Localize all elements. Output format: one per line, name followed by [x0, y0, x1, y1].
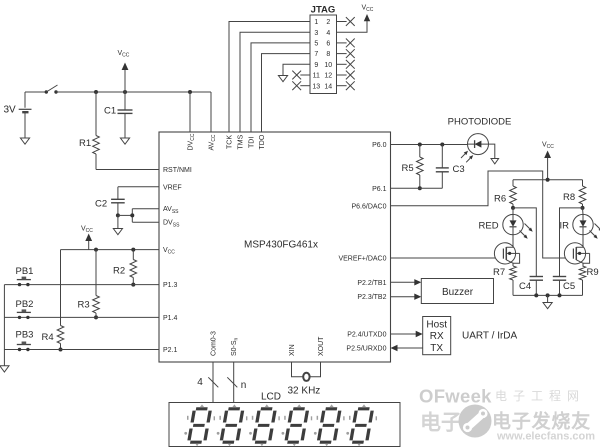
- svg-text:PB2: PB2: [16, 299, 34, 310]
- pin label TDO: [259, 134, 266, 149]
- svg-text:R3: R3: [78, 300, 90, 311]
- Vcc symbol (rail): [118, 50, 130, 92]
- resistor R8: [579, 180, 586, 208]
- label 3V: [4, 105, 17, 116]
- svg-text:13: 13: [312, 83, 320, 90]
- svg-text:RST/NMI: RST/NMI: [163, 167, 192, 174]
- label R1: [79, 138, 91, 149]
- label TX: [430, 343, 443, 354]
- label PHOTODIODE: [448, 117, 512, 128]
- buzzer box: [421, 279, 493, 304]
- ground (C2): [113, 215, 122, 234]
- svg-text:11: 11: [313, 73, 320, 80]
- svg-text:5: 5: [314, 41, 318, 48]
- node R2/P1.3: [131, 283, 135, 287]
- Vcc symbol (pullups): [81, 226, 93, 250]
- node R3 tap: [94, 248, 98, 252]
- pin label P2.1: [163, 347, 178, 354]
- wire TMS: [240, 32, 310, 132]
- wire C5 branch: [560, 208, 584, 277]
- ground (buttons): [0, 366, 9, 372]
- pin label V<tspan font: [163, 247, 175, 256]
- label UART / IrDA: [462, 331, 518, 342]
- svg-text:C3: C3: [453, 164, 465, 175]
- label Host: [426, 320, 447, 331]
- svg-text:Com0-3: Com0-3: [210, 331, 217, 356]
- wire pin2 nc: [337, 17, 355, 26]
- wire AVss/DVss link: [118, 209, 159, 223]
- svg-text:8: 8: [326, 51, 330, 58]
- svg-text:9: 9: [314, 62, 318, 69]
- label R5: [402, 163, 414, 174]
- capacitor C5: [553, 277, 566, 296]
- label JTAG: [311, 4, 336, 15]
- wire button rail: [3, 285, 5, 366]
- resistor R2: [130, 250, 137, 285]
- label C4: [519, 281, 531, 292]
- pin label DVcc top: [187, 133, 196, 150]
- Vcc symbol (JTAG): [362, 5, 374, 22]
- wire photodiode gnd: [489, 144, 495, 158]
- pin label VEREF+/DAC0: [338, 256, 386, 263]
- node R1 tap: [94, 90, 98, 94]
- wire RST/NMI: [96, 169, 159, 171]
- label R3: [78, 300, 90, 311]
- label PB3: [16, 330, 34, 341]
- pushbutton PB1: [17, 277, 31, 287]
- wire S0-Sn: [233, 362, 235, 403]
- resistor R7: [510, 266, 517, 295]
- ground (C1): [120, 138, 129, 144]
- label RX: [430, 331, 444, 342]
- svg-text:n: n: [241, 380, 247, 391]
- svg-text:PHOTODIODE: PHOTODIODE: [448, 117, 512, 128]
- pin label TDI: [248, 137, 255, 148]
- host box: [423, 317, 451, 355]
- wire P2.3/TB2: [391, 294, 422, 300]
- crystal 32KHz: [303, 373, 309, 381]
- svg-text:PB3: PB3: [16, 330, 34, 341]
- svg-text:LCD: LCD: [261, 392, 281, 403]
- wire JTAG pin9 gnd: [283, 64, 310, 75]
- node mid gnd: [546, 293, 550, 297]
- node R6 bottom: [511, 206, 515, 210]
- svg-text:TMS: TMS: [237, 134, 244, 149]
- svg-text:电子: 电子: [420, 412, 462, 435]
- pin label P2.4/UTXD0: [347, 332, 386, 339]
- pin label S0-Sn: [231, 337, 240, 356]
- photodiode D1: [468, 134, 489, 155]
- label C2: [95, 199, 107, 210]
- svg-text:P2.5/URXD0: P2.5/URXD0: [346, 346, 386, 353]
- svg-text:OFweek: OFweek: [419, 386, 492, 407]
- svg-text:P6.6/DAC0: P6.6/DAC0: [351, 203, 386, 210]
- svg-text:UART / IrDA: UART / IrDA: [462, 331, 518, 342]
- wire XOUT: [310, 362, 321, 377]
- node R5 bottom: [418, 186, 422, 190]
- JTAG connector box: [310, 15, 337, 94]
- pin label P2.5/URXD0: [346, 346, 386, 353]
- resistor R1: [93, 92, 100, 170]
- wire pin10 nc: [337, 60, 355, 69]
- bus slash n: [227, 377, 246, 391]
- svg-text:P1.3: P1.3: [163, 282, 178, 289]
- transistor Q2 (IR driver): [564, 235, 589, 266]
- svg-text:Buzzer: Buzzer: [442, 287, 474, 298]
- svg-text:P2.1: P2.1: [163, 347, 178, 354]
- wire VREF: [118, 186, 159, 188]
- svg-text:P2.4/UTXD0: P2.4/UTXD0: [347, 332, 386, 339]
- wire VEREF+/DAC0 net: [391, 257, 504, 259]
- photodiode light arrows: [461, 151, 473, 163]
- transistor Q1 (RED driver): [494, 235, 519, 266]
- label C5: [563, 281, 575, 292]
- svg-text:TDI: TDI: [248, 137, 255, 148]
- wire pin6 nc: [337, 39, 355, 48]
- pin label P1.4: [163, 315, 178, 322]
- label PB1: [16, 266, 34, 277]
- svg-text:2: 2: [326, 19, 330, 26]
- svg-text:P6.0: P6.0: [372, 142, 387, 149]
- svg-text:6: 6: [326, 41, 330, 48]
- wire P2.1: [4, 349, 159, 351]
- svg-text:R9: R9: [587, 267, 599, 278]
- svg-text:XOUT: XOUT: [318, 336, 325, 356]
- pushbutton PB2: [17, 309, 31, 319]
- pin label VREF: [163, 184, 182, 191]
- node C3 top: [440, 143, 444, 147]
- LED IR: [573, 208, 593, 235]
- svg-text:P6.1: P6.1: [372, 186, 387, 193]
- resistor R9: [579, 266, 586, 295]
- pin label P6.1: [372, 186, 387, 193]
- wire Vcc line: [61, 249, 160, 251]
- LCD box: [169, 403, 400, 447]
- label R9: [587, 267, 599, 278]
- wire P6.1: [391, 187, 443, 189]
- svg-text:RX: RX: [430, 331, 444, 342]
- svg-text:P2.2/TB1: P2.2/TB1: [357, 280, 386, 287]
- label C3: [453, 164, 465, 175]
- svg-text:电子工程网: 电子工程网: [495, 388, 585, 403]
- wire pin8 nc: [337, 49, 355, 58]
- pin label AV<tspan fon: [163, 206, 179, 215]
- resistor R6: [510, 180, 517, 208]
- node R8 bottom: [581, 206, 585, 210]
- pin label P2.2/TB1: [357, 280, 386, 287]
- bus slash 4: [197, 377, 218, 388]
- svg-text:3V: 3V: [4, 105, 17, 116]
- svg-text:3: 3: [314, 30, 318, 37]
- MCU U1 MSP430FG461x box: [159, 132, 391, 362]
- svg-text:R8: R8: [563, 192, 575, 203]
- label IR: [560, 221, 570, 232]
- svg-text:XIN: XIN: [289, 344, 296, 356]
- wire LED gnd rail: [513, 294, 583, 296]
- label RED: [479, 221, 499, 232]
- svg-text:10: 10: [324, 62, 332, 69]
- svg-text:C2: C2: [95, 199, 107, 210]
- node R5 top: [418, 143, 422, 147]
- node DVcc tap: [188, 90, 192, 94]
- svg-text:电子发烧友: 电子发烧友: [492, 410, 591, 433]
- ground (photodiode): [491, 159, 499, 164]
- wire P6.6/DAC0 net: [391, 171, 574, 258]
- svg-text:32 KHz: 32 KHz: [288, 386, 321, 397]
- svg-text:PB1: PB1: [16, 266, 34, 277]
- ground (battery): [20, 138, 29, 144]
- wire P1.3: [4, 284, 159, 286]
- wire DVcc: [189, 92, 191, 132]
- svg-text:12: 12: [324, 73, 332, 80]
- LED IR arrows: [590, 224, 600, 239]
- battery 3V: [19, 92, 32, 138]
- node AVss/DVss: [130, 213, 134, 217]
- svg-text:C5: C5: [563, 281, 575, 292]
- wire P2.4/UTXD0: [391, 331, 423, 337]
- pin label XIN: [289, 344, 296, 356]
- wire P2.5/URXD0: [391, 345, 423, 351]
- label R8: [563, 192, 575, 203]
- resistor R4: [57, 326, 64, 350]
- pin label P6.0: [372, 142, 387, 149]
- label R6: [494, 194, 506, 205]
- label R4: [42, 332, 54, 343]
- svg-text:TDO: TDO: [259, 134, 266, 149]
- wire pin12 nc: [337, 71, 355, 80]
- wire Com0-3: [212, 362, 214, 403]
- svg-text:P2.3/TB2: P2.3/TB2: [357, 294, 386, 301]
- wire pin13 nc: [292, 81, 310, 90]
- svg-text:TCK: TCK: [226, 135, 233, 149]
- capacitor C2: [111, 187, 125, 216]
- svg-text:P1.4: P1.4: [163, 315, 178, 322]
- svg-text:7: 7: [314, 51, 318, 58]
- label LCD: [261, 392, 281, 403]
- ground (LED): [543, 295, 552, 308]
- wire pin14 nc: [337, 81, 355, 90]
- svg-text:RED: RED: [479, 221, 499, 232]
- wire TCK: [229, 22, 310, 133]
- pin label Com0-3: [210, 331, 217, 356]
- svg-text:IR: IR: [560, 221, 570, 232]
- pin label XOUT: [318, 336, 325, 356]
- label R2: [113, 266, 125, 277]
- wire P6.0: [391, 144, 468, 146]
- svg-text:R6: R6: [494, 194, 506, 205]
- switch S1: [25, 85, 58, 94]
- wire pin11 nc: [292, 71, 310, 80]
- LED RED arrows: [520, 224, 533, 239]
- node C4 gnd: [534, 293, 538, 297]
- wire R4 drop: [60, 250, 62, 326]
- svg-text:Host: Host: [426, 320, 447, 331]
- node R3/P1.4: [94, 315, 98, 319]
- JTAG pin numbers: [312, 19, 332, 90]
- resistor R3: [93, 250, 100, 318]
- svg-text:C4: C4: [519, 281, 531, 292]
- svg-text:R5: R5: [402, 163, 414, 174]
- label Buzzer: [442, 287, 474, 298]
- node C1 tap: [123, 90, 127, 94]
- pin label P2.3/TB2: [357, 294, 386, 301]
- node R4/P2.1: [59, 348, 63, 352]
- svg-text:R7: R7: [493, 267, 505, 278]
- svg-text:www.elecfans.com: www.elecfans.com: [496, 431, 595, 443]
- capacitor C1: [118, 92, 133, 138]
- pin label RST/NMI: [163, 167, 192, 174]
- wire P2.2/TB1: [391, 279, 422, 285]
- pin label AVcc top: [208, 134, 217, 150]
- capacitor C3: [436, 145, 449, 189]
- pushbutton PB3: [17, 342, 31, 352]
- svg-text:VREF: VREF: [163, 184, 182, 191]
- label R7: [493, 267, 505, 278]
- pin label DV<tspan fon: [163, 220, 180, 229]
- wire Vcc rail: [56, 92, 211, 132]
- wire Vcc LED rail: [513, 179, 583, 181]
- svg-text:C1: C1: [104, 106, 116, 117]
- node C2 gnd: [116, 213, 120, 217]
- label 32 KHz: [288, 386, 321, 397]
- svg-text:VEREF+/DAC0: VEREF+/DAC0: [338, 256, 386, 263]
- svg-text:4: 4: [326, 30, 330, 37]
- wire JTAG pin4 Vcc: [337, 21, 368, 32]
- watermark: [419, 386, 595, 443]
- ground (JTAG): [278, 76, 287, 82]
- svg-text:R2: R2: [113, 266, 125, 277]
- wire XIN: [292, 362, 304, 377]
- resistor R5: [417, 145, 424, 189]
- label MSP430FG461x: [244, 240, 318, 251]
- LED RED: [503, 208, 523, 235]
- node C5 gnd: [558, 293, 562, 297]
- svg-text:R4: R4: [42, 332, 54, 343]
- svg-text:14: 14: [324, 83, 332, 90]
- svg-text:1: 1: [314, 19, 318, 26]
- label C1: [104, 106, 116, 117]
- pin label TCK: [226, 135, 233, 149]
- node Vcc LED: [546, 178, 550, 182]
- svg-text:4: 4: [197, 377, 203, 388]
- svg-text:JTAG: JTAG: [311, 4, 336, 15]
- wire P1.4: [4, 316, 159, 318]
- pin label P1.3: [163, 282, 178, 289]
- label PB2: [16, 299, 34, 310]
- wire TDI: [251, 43, 310, 132]
- svg-text:R1: R1: [79, 138, 91, 149]
- svg-text:MSP430FG461x: MSP430FG461x: [244, 240, 318, 251]
- Vcc symbol (LED): [542, 142, 554, 180]
- svg-text:TX: TX: [430, 343, 443, 354]
- node R2 tap: [131, 248, 135, 252]
- LCD 7-segment digits: [184, 404, 377, 446]
- pin label TMS: [237, 134, 244, 149]
- pin label P6.6/DAC0: [351, 203, 386, 210]
- capacitor C4: [530, 277, 543, 296]
- wire TDO: [262, 54, 311, 132]
- wire C4 branch: [513, 208, 536, 277]
